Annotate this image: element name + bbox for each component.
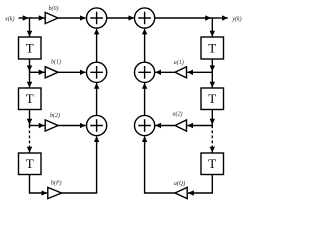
svg-text:T: T: [26, 91, 34, 106]
wire a(Q) left and up into S6: [145, 136, 175, 193]
wire L2 down to row2 junction: [29, 110, 31, 125]
wire L3 down and right to b(P): [30, 175, 48, 194]
delay T L3: [19, 153, 42, 175]
wire b(1) to summer S3: [58, 71, 86, 73]
wire b(0) to summer S1: [58, 17, 86, 19]
wire S6 up into S4: [144, 83, 146, 115]
wire L1 down to row1 junction: [29, 59, 31, 71]
wire input arrow into junction: [19, 17, 29, 19]
wire junction to b(1) gain: [30, 71, 45, 73]
gain b(P): [48, 187, 62, 198]
svg-text:a(Q): a(Q): [174, 180, 185, 187]
wire S3 up into S1: [96, 29, 98, 63]
wire junction to b(0) gain: [30, 17, 45, 19]
gain b(2): [45, 120, 58, 131]
wire S1 to summer S2: [107, 17, 134, 19]
wire b(P) right and up into S5: [62, 136, 97, 193]
wire a(2) into summer S6: [155, 125, 175, 127]
wire junction to a(2) gain: [187, 125, 212, 127]
svg-text:a(1): a(1): [174, 59, 184, 66]
svg-text:T: T: [26, 156, 34, 171]
delay T R3: [201, 153, 224, 175]
wire dashed row2 right junction down to delay R3: [211, 126, 213, 153]
gain b(1): [45, 67, 58, 78]
wire R2 down to row2 right junction: [211, 110, 213, 125]
node row2 left junction: [29, 124, 31, 128]
svg-text:y(k): y(k): [231, 15, 241, 22]
wire junction to y(k): [212, 17, 228, 19]
delay T L2: [19, 88, 42, 110]
summer S4: [135, 62, 155, 82]
wire R1 down to row1 right junction: [211, 59, 213, 71]
wire row1 junction down to delay L2: [29, 72, 31, 87]
delay T R1: [201, 37, 224, 59]
summer S3: [87, 62, 107, 82]
wire S5 up into S3: [96, 83, 98, 115]
summer S5: [87, 115, 107, 135]
delay T R2: [201, 88, 224, 110]
svg-text:b(0): b(0): [49, 5, 59, 12]
node row1 right junction: [211, 70, 213, 74]
wire dashed row2 junction down to delay L3: [29, 126, 31, 153]
gain a(Q): [175, 187, 187, 198]
svg-text:x(k): x(k): [4, 15, 14, 22]
wire output junction down to delay R1: [211, 18, 213, 37]
wire a(1) into summer S4: [155, 71, 175, 73]
gain b(0): [45, 12, 58, 23]
node row2 right junction: [211, 124, 213, 128]
wire junction to b(2) gain: [30, 125, 45, 127]
svg-text:b(1): b(1): [51, 59, 61, 66]
wire S2 to output junction: [155, 17, 211, 19]
node row1 left junction: [29, 70, 31, 74]
node input junction: [29, 17, 32, 19]
wire b(2) to summer S5: [58, 125, 86, 127]
summer S2: [135, 8, 155, 28]
svg-text:a(2): a(2): [173, 111, 183, 118]
gain a(2): [175, 120, 187, 131]
wire S4 up into S2: [144, 29, 146, 63]
wire row1 right junction down to delay R2: [211, 72, 213, 87]
delay T L1: [19, 37, 42, 59]
svg-text:b(P): b(P): [51, 180, 62, 187]
wire input junction down to delay L1: [29, 18, 31, 37]
node output junction: [211, 17, 214, 19]
svg-text:T: T: [208, 91, 216, 106]
summer S1: [87, 8, 107, 28]
wire junction to a(1) gain: [187, 71, 212, 73]
summer S6: [135, 115, 155, 135]
wire R3 down and left to a(Q): [188, 175, 212, 194]
svg-text:b(2): b(2): [50, 112, 60, 119]
svg-text:T: T: [26, 40, 34, 55]
svg-text:T: T: [208, 156, 216, 171]
gain a(1): [175, 67, 187, 78]
svg-text:T: T: [208, 40, 216, 55]
